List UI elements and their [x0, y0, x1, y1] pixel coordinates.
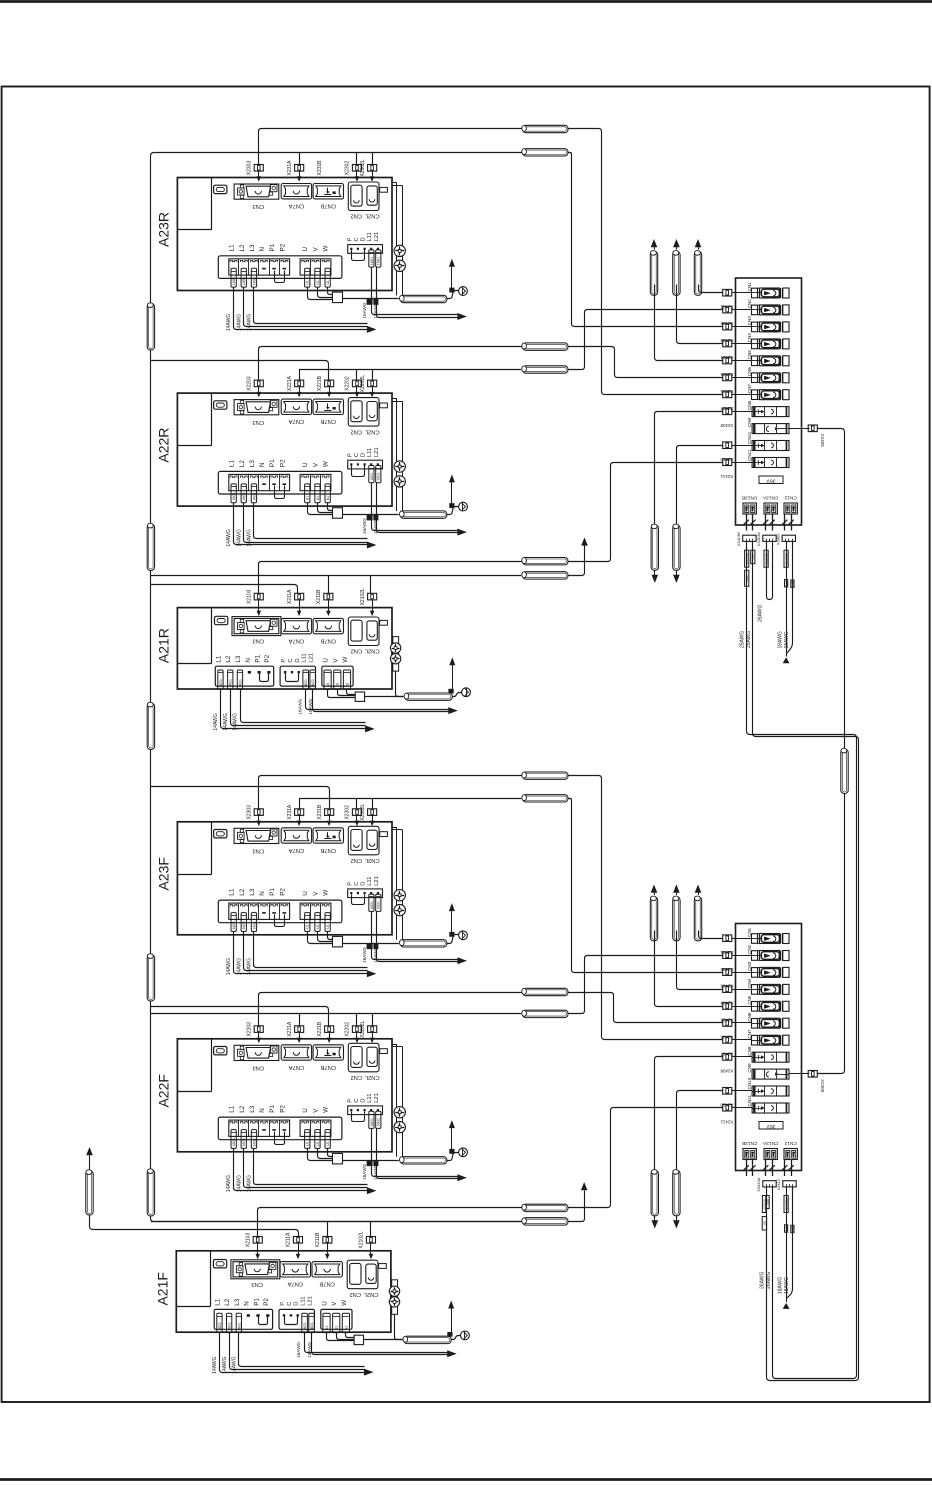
wire column to X2405 lower — [655, 931, 723, 1007]
wire X2405 to connector — [732, 360, 752, 362]
svg-text:16G1: 16G1 — [232, 492, 236, 500]
module A22F outline — [177, 1039, 392, 1152]
svg-text:CN7B: CN7B — [320, 418, 336, 424]
svg-text:14AWG: 14AWG — [226, 958, 232, 975]
svg-text:L21: L21 — [374, 876, 380, 886]
wire lug tip L21 of A22F — [373, 1160, 378, 1166]
mounting rail of A21F — [392, 1280, 398, 1315]
wire tag BK14G CN13B upper — [745, 550, 749, 567]
wire X2410 to connector — [732, 1090, 752, 1092]
ferrite bead column x676 upper — [673, 251, 680, 295]
svg-text:N: N — [244, 1301, 251, 1306]
plug X2410 of box lower — [723, 1088, 732, 1095]
svg-text:18AWG: 18AWG — [373, 946, 378, 962]
svg-text:CN2: CN2 — [747, 944, 752, 954]
ferrite bead on left bus — [147, 955, 154, 1001]
svg-text:BK(18G): BK(18G) — [784, 1198, 788, 1210]
svg-text:BK(14G): BK(14G) — [745, 553, 749, 565]
svg-text:X221A: X221A — [287, 375, 293, 391]
terminal lug V of A22F — [315, 1130, 320, 1149]
terminal pin of A21F — [247, 1314, 250, 1317]
connector CN5 of box upper — [752, 356, 758, 366]
svg-text:26AWG: 26AWG — [758, 604, 764, 621]
connector CN7 of box upper — [752, 390, 758, 400]
wire X2302L A23F drop — [372, 798, 374, 809]
terminal strip L1-P2 of A21F — [214, 1309, 272, 1329]
ferrite bead ground of A22F — [400, 1157, 447, 1164]
svg-text:U1: U1 — [344, 1326, 348, 1330]
ground branch arrow of A23F — [451, 911, 453, 934]
terminal strip U V W of A21R — [322, 666, 353, 686]
wire signal bus A23R to X2403 upper — [569, 153, 723, 327]
plug X2403 of box lower — [723, 969, 732, 976]
svg-text:X2303: X2303 — [247, 805, 253, 820]
svg-text:BK(18G): BK(18G) — [784, 553, 788, 565]
wire stub of box upper — [746, 514, 748, 531]
wire 14AWG L2 of A23F — [244, 932, 368, 971]
svg-text:X211B: X211B — [315, 1232, 321, 1247]
terminal lug V of A22R — [315, 484, 320, 503]
jumper P-D of A21F — [285, 1317, 298, 1325]
wire X2302 A23R drop — [356, 152, 358, 164]
wire CN12-2 upper — [787, 542, 793, 654]
terminal lug L3 of A22R — [251, 484, 256, 503]
wire 14AWG L2 of A23R — [244, 288, 368, 327]
svg-text:D: D — [361, 453, 367, 457]
cable arrow L11 L21 of A21F — [447, 1350, 457, 1357]
svg-text:X231B: X231B — [317, 804, 323, 820]
svg-text:16G1: 16G1 — [237, 1322, 241, 1330]
svg-text:18AWG: 18AWG — [373, 1163, 378, 1179]
plug X2411 of box lower — [723, 1104, 732, 1111]
svg-text:16G1: 16G1 — [370, 472, 374, 480]
terminal pin of A21F — [297, 1314, 299, 1316]
cable arrow 14AWG of A22R — [367, 542, 377, 549]
svg-text:CN1: CN1 — [747, 282, 752, 292]
cable arrow L11 L21 of A22R — [457, 529, 467, 536]
wire stub of box upper — [765, 514, 767, 531]
svg-text:P2: P2 — [264, 654, 271, 662]
wire X2202L A22R drop — [372, 370, 374, 381]
terminal lug W of A23R — [325, 268, 330, 287]
svg-text:X2203: X2203 — [247, 1022, 253, 1037]
terminal pin of A21R — [258, 671, 261, 674]
chassis ground screw of A22R — [459, 502, 468, 511]
wire 14AWG L3 of A21F — [239, 1333, 365, 1367]
svg-text:X231A: X231A — [287, 804, 293, 820]
wire column to X2401 lower — [699, 931, 723, 939]
jumper P1-P2 of A22F — [275, 1132, 285, 1145]
plug X2202 of A22F — [352, 1026, 361, 1033]
ground wire of A22R — [343, 514, 399, 516]
wire X211B A21F drop — [327, 1221, 329, 1236]
svg-text:CN8: CN8 — [747, 400, 752, 410]
36V label box of lower — [759, 1122, 783, 1130]
ground wire of A21F — [364, 1339, 403, 1341]
svg-text:16G1: 16G1 — [232, 921, 236, 929]
wire X2408 to connector — [732, 1056, 752, 1058]
svg-text:P: P — [347, 453, 353, 457]
svg-text:L2: L2 — [239, 888, 246, 896]
connector CN3 of box upper — [752, 322, 758, 332]
svg-text:X211A: X211A — [286, 1232, 292, 1247]
ferrite bead column x676 lower — [673, 897, 680, 941]
ground lug of A23F — [449, 932, 454, 937]
branch left bus to plug X231B of A23F — [151, 787, 330, 809]
plug X2409 of box lower — [808, 1071, 817, 1078]
wire 14AWG L3 of A22F — [254, 1149, 368, 1185]
lug L21 of A21R — [310, 670, 316, 689]
ground branch arrow of A21R — [452, 665, 454, 692]
wire X2410 lower down cable — [677, 1091, 723, 1171]
control pin L21 of A23F — [377, 892, 379, 894]
svg-text:14AWG: 14AWG — [247, 314, 253, 331]
control pin C of A23F — [357, 892, 359, 894]
svg-text:L1: L1 — [229, 460, 236, 468]
cable arrow L11 L21 of A22F — [457, 1174, 467, 1181]
svg-text:N: N — [259, 891, 266, 896]
svg-text:CN7A: CN7A — [289, 418, 305, 424]
mounting rail of A23R — [392, 182, 397, 184]
cable arrow down X2410 upper — [673, 575, 680, 583]
wire CN12-1 upper — [786, 541, 788, 656]
svg-text:CN9: CN9 — [747, 1063, 752, 1073]
svg-text:A21R: A21R — [156, 628, 172, 663]
svg-text:U1: U1 — [306, 496, 310, 500]
control pin P of A23F — [350, 892, 352, 894]
plug X231A of A23R — [295, 165, 304, 172]
ground link of A23F — [447, 935, 459, 944]
chassis ground screw of A21F — [461, 1331, 470, 1340]
plug X2403 of box upper — [723, 323, 732, 330]
wire CN9 to X2409 of box upper — [789, 428, 810, 430]
svg-text:U1: U1 — [326, 280, 330, 284]
wire L21 of A23R — [377, 268, 458, 318]
wire signal bus A21F stub up — [569, 1191, 585, 1222]
svg-text:16G1: 16G1 — [252, 1138, 256, 1146]
lug L11 of A22R — [369, 466, 374, 483]
plug X2302L of A23R — [368, 165, 377, 172]
ferrite bead ground of A21F — [404, 1336, 451, 1343]
cable arrow feeder X211A A21F — [86, 1147, 93, 1155]
svg-text:16G1: 16G1 — [232, 1138, 236, 1146]
svg-text:U1: U1 — [326, 682, 330, 686]
wire mark 12B lower — [785, 1225, 788, 1232]
wire X2406 to connector — [732, 377, 752, 379]
wire 14AWG L1 of A22F — [234, 1149, 368, 1191]
wire 14AWG L2 of A21F — [230, 1333, 365, 1370]
wire L11 of A23F — [372, 912, 458, 960]
ground lug of A21R — [448, 689, 453, 694]
svg-text:X2202L: X2202L — [360, 375, 366, 392]
cable arrow 14AWG of A22F — [367, 1187, 377, 1194]
ground wire of A22F — [343, 1160, 399, 1162]
wire column to X2401 upper — [699, 285, 723, 293]
lug L11 of A23R — [369, 250, 374, 267]
wire X2103 A21F to X2411 lower — [569, 1108, 723, 1208]
plug X231B of A23F — [325, 809, 334, 816]
svg-text:D: D — [295, 658, 301, 662]
svg-text:100: 100 — [763, 1220, 767, 1225]
connector CN11 of box lower — [752, 1103, 789, 1113]
svg-text:X231B: X231B — [317, 160, 323, 176]
screw terminal upper of A23F — [394, 890, 405, 901]
wire X2404 to connector — [732, 989, 752, 991]
svg-text:26AWG: 26AWG — [759, 1271, 765, 1288]
filter block of A23R — [333, 292, 343, 303]
svg-text:14AWG: 14AWG — [226, 314, 232, 331]
terminal pin of A21R — [284, 671, 286, 673]
connectors CN2 and CN2L of A22R — [348, 398, 379, 427]
wire stub of box upper — [752, 514, 754, 531]
plug X211A of A21R — [295, 593, 304, 600]
svg-text:CN2L: CN2L — [364, 857, 380, 863]
control pin D of A23F — [364, 892, 366, 894]
ground branch arrow of A23R — [451, 267, 453, 290]
wire L21 of A21F — [312, 1333, 448, 1355]
plug X2401 of box upper — [723, 289, 732, 296]
svg-text:P: P — [281, 659, 287, 663]
svg-text:X2302: X2302 — [345, 805, 351, 820]
cable arrow down X2408 upper — [652, 575, 659, 583]
svg-text:L21: L21 — [374, 1093, 380, 1103]
svg-text:CN11: CN11 — [747, 1095, 752, 1107]
wire X211A into A21R — [299, 600, 301, 611]
wire tag CN13A lower — [762, 1196, 765, 1213]
svg-text:CN2L: CN2L — [364, 1074, 380, 1080]
ground wire of A23R — [343, 298, 399, 300]
svg-text:X3413A: X3413A — [756, 532, 761, 547]
svg-text:CN3: CN3 — [252, 419, 264, 425]
svg-text:U1: U1 — [336, 682, 340, 686]
svg-text:16AWG: 16AWG — [362, 302, 367, 318]
plug X221A of A22R — [295, 380, 304, 387]
module A22R service connector — [214, 401, 227, 409]
ground lug of A23R — [449, 288, 454, 293]
ferrite bead signal bus A23F — [523, 795, 568, 802]
terminal pin of A21R — [298, 671, 300, 673]
wire X2302 A23F drop — [356, 798, 358, 809]
svg-text:CN3: CN3 — [251, 1281, 263, 1287]
ferrite bead ground of A21R — [405, 693, 452, 700]
filter block of A21R — [355, 692, 364, 701]
connector CN9 of box upper — [752, 424, 789, 434]
control terminal block of A22F — [348, 1106, 383, 1115]
svg-text:X2408: X2408 — [720, 1069, 734, 1074]
ground branch arrow of A21F — [451, 1308, 453, 1335]
svg-text:C: C — [354, 1099, 360, 1103]
svg-text:CN3: CN3 — [252, 1065, 264, 1071]
svg-text:U: U — [302, 1108, 309, 1113]
svg-text:14AWG: 14AWG — [236, 314, 242, 331]
wire lug tip L11 of A22F — [367, 1160, 373, 1166]
svg-text:18AWG: 18AWG — [778, 1277, 784, 1294]
wire X211B A21R drop — [328, 575, 330, 593]
mounting rail of A22F — [392, 1044, 397, 1046]
svg-text:X2103: X2103 — [247, 589, 253, 604]
connector CN7A of A22F — [281, 1045, 311, 1060]
terminal lug L1 of A22F — [231, 1130, 236, 1149]
wire X2401 to connector — [732, 938, 752, 940]
svg-text:25AWG: 25AWG — [746, 631, 752, 648]
svg-text:18AWG: 18AWG — [308, 698, 313, 714]
svg-text:18AWG: 18AWG — [784, 1277, 790, 1294]
svg-text:16G1: 16G1 — [219, 679, 223, 687]
ground link of A22F — [447, 1153, 459, 1161]
connector CN7B of A21F — [312, 1262, 342, 1277]
svg-text:18AWG: 18AWG — [778, 631, 784, 648]
svg-text:16G1: 16G1 — [310, 1322, 314, 1330]
ferrite bead X2303 A23F — [523, 772, 568, 779]
wire X231A A23R drop — [299, 152, 301, 164]
terminal pin of A21R — [248, 671, 251, 674]
ferrite bead column x698 lower — [694, 897, 701, 941]
terminal lug W of A23F — [325, 913, 330, 932]
connector CN3 of A22F — [234, 1045, 279, 1060]
wire 14AWG L3 of A22R — [254, 503, 368, 539]
lug L21 of A23R — [376, 250, 381, 267]
wire X211A into A21F — [298, 1243, 300, 1254]
wire X2103 A21F bus — [258, 1208, 522, 1237]
wire U of A23R — [308, 288, 333, 300]
control pin L11 of A22F — [370, 1109, 372, 1111]
svg-text:P1: P1 — [269, 243, 276, 251]
plug X2407 of box upper — [723, 391, 732, 398]
connector CN2 of box upper — [752, 305, 758, 315]
lug L11 of A21F — [302, 1313, 308, 1332]
svg-text:L3: L3 — [249, 244, 256, 252]
wire signal bus A22F — [151, 1013, 521, 1015]
svg-text:CN7: CN7 — [747, 1029, 752, 1039]
filter block of A23F — [333, 936, 343, 947]
terminal strip P-L21 of A21F — [279, 1309, 314, 1329]
terminal pin of A21F — [256, 1314, 259, 1317]
cable arrow 14AWG of A23F — [367, 970, 377, 977]
svg-text:CN2: CN2 — [350, 1074, 362, 1080]
terminal pin of A23R — [283, 268, 287, 270]
svg-text:CN4: CN4 — [747, 978, 752, 988]
control pin P of A23R — [350, 248, 352, 250]
svg-text:CN3: CN3 — [252, 203, 264, 209]
wire L11 of A21F — [305, 1333, 448, 1353]
plug X2202 of A22R — [352, 380, 361, 387]
control pin L21 of A23R — [377, 248, 379, 250]
wire stub of box upper — [772, 514, 774, 531]
wire X2103 into A21F — [257, 1243, 259, 1254]
jumper P-D of A22F — [352, 1112, 365, 1122]
svg-text:U1: U1 — [326, 496, 330, 500]
wire stub of box lower — [752, 1160, 754, 1177]
svg-text:16AWG: 16AWG — [362, 518, 367, 534]
wire 14AWG L1 of A23R — [234, 288, 368, 330]
wire X2203 into A22R — [258, 387, 260, 392]
terminal lug U of A23F — [305, 913, 310, 932]
connector CN7B of A23R — [313, 184, 343, 199]
svg-text:18AWG: 18AWG — [373, 302, 378, 318]
wire stub of box lower — [772, 1160, 774, 1177]
terminal lug L2 of A22F — [241, 1130, 246, 1149]
cable arrow L11 L21 of A23F — [457, 957, 467, 964]
svg-text:L21: L21 — [374, 232, 380, 242]
wire X2405 to connector — [732, 1006, 752, 1008]
svg-text:X2202L: X2202L — [360, 1020, 366, 1037]
page header rule — [0, 0, 932, 3]
connector CN7A of A21F — [280, 1262, 310, 1277]
terminal pin of A21R — [291, 671, 293, 673]
wire 14AWG L3 of A23R — [254, 288, 368, 324]
wire L21 of A23F — [377, 912, 458, 962]
svg-text:16G1: 16G1 — [370, 257, 374, 265]
tag next to CN2L of A22F — [380, 1049, 388, 1054]
lug L21 of A21F — [309, 1313, 315, 1332]
terminal pin of A23F — [272, 912, 276, 914]
svg-text:X2409: X2409 — [820, 434, 825, 448]
lug L21 of A22R — [376, 466, 381, 483]
connector CN3 of A21F — [231, 1260, 280, 1279]
ferrite bead ground of A22R — [400, 511, 447, 518]
svg-text:16G1: 16G1 — [232, 277, 236, 285]
terminal pin of A23F — [262, 912, 266, 914]
distribution box upper — [736, 278, 802, 525]
svg-text:X2302: X2302 — [345, 161, 351, 176]
terminal strip L1-P2 of A21R — [215, 666, 273, 686]
mounting rail of A21R — [393, 637, 399, 672]
plug X211B of A21R — [324, 593, 333, 600]
connectors CN2 and CN2L of A23F — [348, 826, 379, 855]
chassis ground screw of A23R — [459, 287, 468, 296]
svg-text:L11: L11 — [302, 653, 308, 662]
terminal lug L1 of A23R — [231, 268, 236, 287]
wire mark 34B upper — [791, 580, 794, 587]
wire X231A into A23F — [299, 815, 301, 820]
svg-text:L3: L3 — [249, 888, 256, 896]
control pin L11 of A23R — [370, 248, 372, 250]
mounting rail of A23F — [392, 827, 397, 829]
jumper P1-P2 of A21F — [259, 1317, 268, 1325]
screw terminal upper of A22F — [394, 1107, 405, 1118]
wire 14AWG L2 of A22R — [244, 503, 368, 543]
branch left bus to plug X221B of A22F — [151, 1007, 329, 1026]
lug L21 of A23F — [376, 894, 381, 911]
connector CN1 of box upper — [752, 288, 758, 298]
svg-text:16G1: 16G1 — [242, 277, 246, 285]
svg-text:16G1: 16G1 — [377, 472, 381, 480]
terminal lug U of A22F — [305, 1130, 310, 1149]
svg-text:U: U — [302, 891, 309, 896]
module A21R inner panel notch — [211, 608, 213, 664]
wire signal bus A22R to X2402 upper — [569, 310, 723, 370]
svg-text:16G1: 16G1 — [377, 1118, 381, 1126]
terminal lug L1 of A21R — [218, 670, 223, 689]
connector CN7A of A23R — [281, 184, 311, 199]
svg-text:L2: L2 — [239, 244, 246, 252]
plug X2303 of A23F — [254, 809, 263, 816]
plug X2410 of box upper — [723, 442, 732, 449]
svg-text:12B: 12B — [784, 581, 788, 586]
svg-text:C: C — [354, 237, 360, 241]
svg-text:CN2L: CN2L — [364, 213, 380, 219]
svg-text:CN9: CN9 — [747, 417, 752, 427]
terminal lug W of A21F — [342, 1313, 349, 1332]
svg-text:W: W — [323, 461, 330, 467]
jumper P-D of A23R — [352, 250, 365, 261]
ferrite bead signal bus A22F — [523, 1010, 568, 1017]
plug X221A of A22F — [295, 1026, 304, 1033]
svg-text:L3: L3 — [249, 1105, 256, 1113]
svg-text:16AWG: 16AWG — [297, 698, 302, 714]
cable arrow 14AWG of A23R — [367, 326, 377, 333]
wire X2203 A22R to X2406 upper — [569, 347, 723, 378]
